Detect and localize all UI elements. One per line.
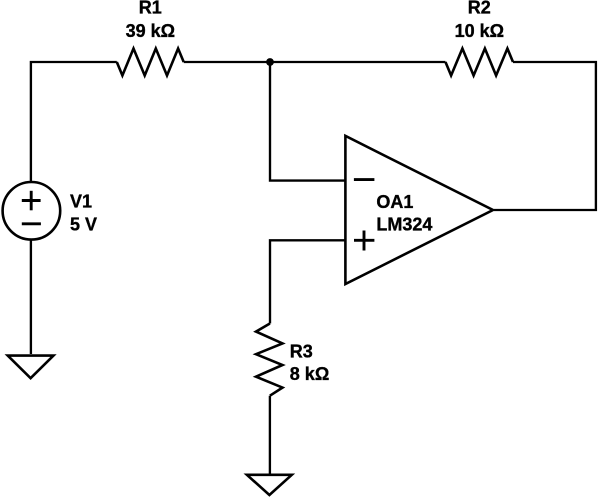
svg-text:OA1: OA1 [376, 192, 413, 212]
wire: V1 top to R1 (left vertical + top horizontal) [31, 62, 117, 181]
svg-text:R3: R3 [290, 341, 313, 361]
svg-text:5 V: 5 V [70, 214, 97, 234]
wire: R2 to op-amp output (feedback right side) [494, 62, 596, 210]
svg-text:R2: R2 [468, 0, 491, 18]
ground (below V1) [8, 356, 54, 379]
op-amp U1 triangle [345, 136, 493, 284]
svg-text:10 kΩ: 10 kΩ [455, 21, 504, 41]
svg-text:R1: R1 [139, 0, 162, 18]
voltage source V1 circle [3, 182, 61, 240]
wire: non-inverting input to R3 top [270, 240, 345, 323]
op-amp plus input symbol [354, 231, 374, 251]
resistor R2 [446, 49, 514, 76]
svg-text:LM324: LM324 [376, 215, 432, 235]
svg-text:8 kΩ: 8 kΩ [290, 364, 329, 384]
V1 plus symbol [22, 191, 41, 211]
op-amp minus input symbol [354, 178, 375, 181]
V1 minus symbol [22, 222, 41, 225]
wire: V1 bottom to ground [30, 240, 32, 354]
resistor R3 [256, 324, 283, 396]
resistor R1 [117, 49, 184, 76]
wire: R3 bottom to ground [269, 396, 271, 474]
wire: node to inverting input [270, 62, 345, 181]
node junction dot [266, 58, 274, 66]
svg-text:V1: V1 [70, 191, 92, 211]
svg-text:39 kΩ: 39 kΩ [126, 21, 175, 41]
wire: R1 to R2 through node [184, 61, 446, 63]
ground (below R3) [247, 475, 292, 495]
